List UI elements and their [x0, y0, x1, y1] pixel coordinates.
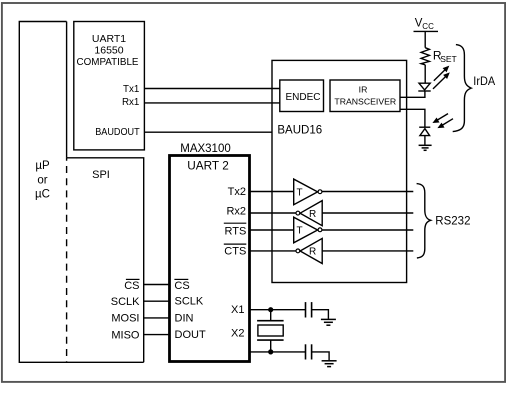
crystal Y1: [257, 310, 284, 352]
svg-text:X2: X2: [231, 328, 244, 340]
wire transceiver to photodiode: [400, 109, 425, 127]
LED D1: [418, 83, 430, 91]
svg-text:BAUDOUT: BAUDOUT: [95, 127, 140, 138]
svg-text:SPI: SPI: [92, 169, 110, 181]
svg-text:T: T: [297, 226, 303, 237]
wire X2: [250, 351, 306, 353]
svg-text:µC: µC: [35, 188, 50, 200]
svg-text:T: T: [297, 187, 303, 198]
svg-text:CC: CC: [422, 22, 434, 31]
buffer R2: [296, 238, 322, 263]
node X1 junction: [268, 307, 273, 312]
resistor RSET: [421, 48, 457, 65]
dashed partition line: [66, 158, 68, 362]
IR transceiver box: [330, 80, 400, 112]
MAX3100 box: [170, 156, 250, 362]
wire SCLK SPI to MAX3100: [144, 300, 170, 302]
svg-text:IrDA: IrDA: [473, 76, 495, 88]
emission arrows: [433, 66, 450, 89]
wire T1 output: [322, 191, 413, 193]
svg-text:Rx2: Rx2: [226, 206, 246, 218]
capacitor C2: [306, 344, 312, 359]
wire CTS to R buffer: [250, 250, 296, 252]
wire X1: [250, 309, 306, 311]
svg-text:CS: CS: [124, 280, 139, 292]
ENDEC box: [280, 80, 324, 112]
incoming light arrows: [432, 114, 453, 129]
wire C2 to ground: [312, 352, 330, 360]
svg-text:MAX3100: MAX3100: [180, 143, 231, 155]
svg-text:DIN: DIN: [175, 312, 194, 324]
wire R2 input: [322, 250, 413, 252]
svg-text:SCLK: SCLK: [111, 296, 140, 308]
svg-text:BAUD16: BAUD16: [277, 125, 322, 137]
svg-text:RTS: RTS: [224, 225, 246, 237]
buffer R1: [296, 201, 322, 226]
wire T2 output: [322, 229, 413, 231]
svg-text:Tx2: Tx2: [228, 186, 246, 198]
wire Rx1 to ENDEC: [144, 102, 279, 104]
svg-text:or: or: [37, 175, 47, 187]
svg-text:UART1: UART1: [92, 33, 126, 45]
wire Vcc to resistor: [424, 31, 426, 47]
ground (photodiode): [419, 145, 432, 150]
svg-text:DOUT: DOUT: [175, 329, 206, 341]
svg-text:X1: X1: [231, 304, 244, 316]
svg-text:MISO: MISO: [111, 329, 140, 341]
svg-text:Tx1: Tx1: [123, 84, 139, 95]
svg-text:CTS: CTS: [224, 246, 246, 258]
pin CS (SPI side, overline): [124, 279, 139, 292]
wire LED to transceiver: [400, 91, 425, 97]
svg-text:CS: CS: [174, 280, 189, 292]
wire C1 to ground: [312, 310, 329, 319]
node X2 junction: [268, 349, 273, 354]
svg-text:ENDEC: ENDEC: [285, 92, 320, 103]
svg-text:COMPATIBLE: COMPATIBLE: [77, 56, 139, 68]
wire RTS to T buffer: [250, 229, 294, 231]
svg-text:RS232: RS232: [435, 216, 470, 228]
UART1 block: [74, 22, 145, 150]
UART1 16550 COMPATIBLE label: [77, 33, 139, 68]
pin CS (MAX side, overline): [174, 279, 189, 292]
svg-text:SCLK: SCLK: [175, 296, 204, 308]
wire Tx1 to ENDEC: [144, 88, 279, 90]
svg-text:IR: IR: [359, 85, 368, 95]
svg-text:SET: SET: [440, 54, 457, 64]
svg-text:MOSI: MOSI: [111, 313, 139, 325]
svg-text:R: R: [309, 247, 316, 258]
buffer T2: [294, 217, 322, 243]
IR TRANSCEIVER label: [334, 85, 396, 107]
buffer T1: [294, 179, 322, 205]
wire BAUDOUT to BAUD16: [144, 131, 272, 133]
Vcc supply: [414, 18, 439, 32]
wire MISO to DOUT: [144, 334, 170, 336]
svg-text:µP: µP: [35, 160, 50, 172]
ground (C2): [322, 361, 337, 367]
pin RTS (overline): [224, 223, 247, 237]
wire photodiode to ground: [424, 136, 426, 145]
wire R1 input: [322, 212, 413, 214]
transceiver enclosure box: [272, 60, 407, 282]
brace RS232: [417, 184, 431, 258]
SPI block: [67, 158, 144, 362]
svg-text:16550: 16550: [94, 44, 123, 56]
microprocessor block uP: [19, 22, 143, 363]
wire Tx2 to T buffer: [250, 191, 294, 193]
svg-text:TRANSCEIVER: TRANSCEIVER: [334, 96, 396, 106]
capacitor C1: [306, 302, 312, 317]
wire MOSI to DIN: [144, 317, 170, 319]
photodiode D2: [419, 127, 430, 135]
svg-text:R: R: [309, 209, 316, 220]
wire Rx2 to R buffer: [250, 212, 296, 214]
uP or uC label: [35, 160, 50, 200]
brace IrDA: [453, 45, 472, 132]
ground (C1): [321, 319, 336, 325]
pin CTS (overline): [224, 244, 247, 257]
svg-text:Rx1: Rx1: [122, 97, 139, 108]
wire resistor to LED: [424, 65, 426, 83]
svg-text:UART 2: UART 2: [187, 160, 229, 172]
wire CS SPI to MAX3100: [144, 284, 170, 286]
